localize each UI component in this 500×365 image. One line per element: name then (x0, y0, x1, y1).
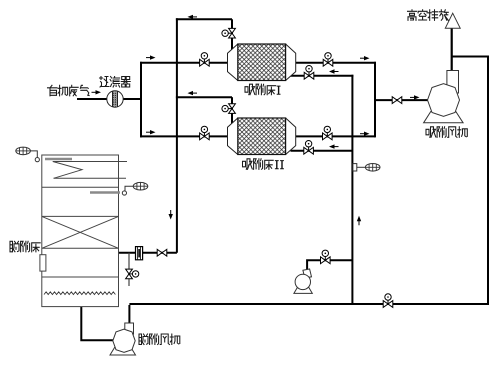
tower manway (40, 255, 46, 271)
wire: pump discharge line (307, 260, 352, 270)
arrow: bed I top return flow (188, 15, 194, 19)
desorption fan housing (113, 329, 135, 352)
wire: branch to bed I inlet (140, 62, 228, 64)
valve: bed II inlet (200, 133, 210, 140)
filter body (107, 91, 123, 107)
tower liquid level wavy line (44, 292, 115, 295)
tower spray header 2 (90, 191, 120, 194)
arrow: inlet to filter (96, 90, 102, 94)
wire: desorb return downcomer (176, 18, 178, 252)
tower tray line 1 (42, 186, 119, 188)
valve: bottom recycle (383, 301, 393, 308)
wire: bottom recycle line (129, 303, 489, 305)
wire: bed I hot-air return (291, 75, 354, 77)
rotameter (136, 247, 143, 260)
arrow: fan inlet flow (414, 95, 420, 99)
pump housing (295, 274, 310, 289)
instrument oval 3 (353, 164, 357, 171)
arrow: bed I outlet flow (364, 56, 370, 60)
wire: tower bottom to desorb fan (81, 307, 114, 341)
wire: bed II outlet to fan manifold (296, 135, 375, 137)
tower nozzle flange 2 (122, 191, 126, 195)
stack cone (445, 13, 460, 28)
wire: tower outlet line (119, 252, 177, 254)
filter element (113, 91, 118, 106)
arrow: to bed I (150, 55, 156, 59)
valve: bed II top (229, 104, 236, 114)
valve: tower outlet (157, 249, 167, 256)
pump base (294, 287, 312, 293)
valve: pump discharge (321, 257, 331, 264)
wire: bed I top return line (176, 18, 232, 20)
wire: fan suction manifold (374, 62, 376, 138)
tower coil inlet pipe (53, 161, 127, 163)
wire: bed II top return line (176, 96, 232, 98)
adsorption bed I shell (238, 44, 286, 81)
valve: bed I return (304, 72, 314, 79)
adsorption fan outlet duct (447, 71, 459, 94)
arrow: bed II outlet flow (364, 132, 370, 136)
wire: bed II hot-air return (291, 150, 353, 152)
valve: tower drain (126, 269, 133, 279)
valve: bed I inlet (200, 59, 210, 66)
arrow: downcomer flow (169, 214, 173, 220)
adsorption bed II shell (238, 118, 286, 155)
tower tray line 2 (42, 215, 119, 217)
wire: right bypass line (452, 57, 488, 305)
valve: bed I top (229, 28, 236, 38)
label: high altitude discharge (408, 10, 417, 20)
arrow: riser flow (357, 216, 361, 222)
pump outlet duct (303, 269, 312, 278)
wire: raw gas inlet line (77, 98, 107, 100)
adsorption fan housing (428, 84, 460, 117)
valve: bed II outlet (323, 133, 333, 140)
adsorption fan base (424, 112, 464, 123)
arrow: bed I return flow (329, 69, 335, 73)
wire: inlet manifold riser (140, 62, 142, 138)
instrument oval 1 (16, 147, 31, 155)
label: desorption fan (139, 334, 148, 345)
adsorption bed I right cap (286, 44, 296, 81)
wire: stack riser (451, 28, 453, 71)
adsorption bed II left cap (228, 118, 238, 155)
wire: bed I outlet to fan manifold (296, 62, 376, 64)
wire: bed II top valve drop (231, 97, 233, 124)
wire: bed I top valve drop (231, 19, 233, 50)
instrument oval 2 (133, 182, 148, 190)
arrow: bed II return flow (329, 144, 335, 148)
desorption fan base (110, 346, 136, 355)
tower coil outlet pipe (54, 177, 126, 179)
tower spray header 1 (45, 158, 72, 161)
tower tray line 3 (42, 276, 119, 278)
label: filter (100, 77, 110, 88)
valve: bed II return (304, 147, 314, 154)
label: organic waste gas (48, 85, 58, 96)
label: adsorption fan (426, 127, 436, 138)
adsorption bed I left cap (228, 44, 238, 81)
label: adsorption bed II (243, 159, 253, 170)
wire: desorb supply riser (351, 75, 353, 304)
arrow: bed II top return flow (188, 91, 194, 95)
wire: desorb fan discharge (128, 305, 130, 324)
arrow: to bed II (150, 130, 156, 134)
label: desorption bed (10, 241, 19, 252)
tower cooling coil (53, 162, 82, 179)
desorption tower shell (42, 155, 119, 307)
wire: branch to bed II inlet (140, 135, 228, 137)
adsorption bed II right cap (286, 118, 296, 155)
valve: bed I outlet (323, 59, 333, 66)
label: adsorption bed I (245, 84, 255, 95)
desorption fan outlet duct (125, 323, 134, 334)
wire: drain stub (128, 253, 130, 286)
nozzle flange 1 (35, 158, 39, 162)
tower packing X section (42, 216, 119, 248)
wire: fan inlet line (375, 99, 428, 101)
wire: filter to manifold (123, 98, 142, 100)
valve: fan inlet (392, 97, 402, 104)
